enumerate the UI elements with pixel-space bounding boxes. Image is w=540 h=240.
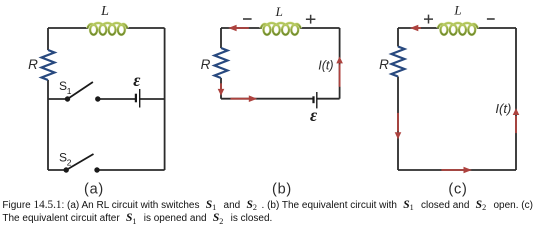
resistor R (c)	[392, 47, 405, 77]
wire right (b)	[339, 28, 341, 99]
current arrow bottom-right (c)	[441, 167, 472, 174]
current arrow left-down (c)	[395, 113, 402, 139]
label plus (c)	[424, 15, 433, 24]
wire top (b)	[221, 27, 340, 29]
svg-text:(c): (c)	[448, 181, 467, 197]
wire bottom (c)	[398, 169, 516, 171]
svg-text:ε: ε	[133, 70, 141, 90]
resistor R (b)	[215, 48, 228, 78]
svg-text:R: R	[379, 57, 389, 72]
svg-text:2: 2	[67, 157, 72, 167]
wire right (c)	[515, 28, 517, 170]
svg-text:I(t): I(t)	[495, 101, 511, 116]
current arrow top (b)	[228, 25, 249, 32]
current arrow left-down (b)	[218, 83, 225, 96]
wire right (a)	[164, 28, 166, 170]
wire top (a)	[48, 27, 165, 29]
switch S2 (a)	[63, 167, 99, 172]
label minus (c)	[487, 18, 495, 20]
wire left (a)	[47, 28, 49, 170]
wire top (c)	[398, 27, 516, 29]
wire bottom (b)	[221, 98, 340, 100]
switch S1 (a)	[65, 96, 101, 101]
battery EMF (a)	[136, 89, 140, 108]
inductor L (a)	[87, 23, 127, 35]
label plus (b)	[306, 15, 316, 24]
wire middle (a)	[48, 98, 165, 100]
svg-text:R: R	[28, 57, 38, 72]
current arrow right-up (b)	[336, 57, 343, 87]
inductor L (c)	[438, 23, 478, 35]
wire left (c)	[397, 28, 399, 170]
current arrow bottom-right (b)	[231, 95, 258, 102]
svg-text:R: R	[201, 57, 211, 72]
svg-text:I(t): I(t)	[318, 59, 333, 73]
battery EMF (b)	[314, 92, 317, 108]
svg-text:1: 1	[67, 86, 72, 96]
inductor L (b)	[261, 23, 301, 35]
figure caption	[2, 199, 538, 227]
current arrow right-up (c)	[513, 108, 520, 133]
wire left (b)	[220, 28, 222, 99]
current arrow top (c)	[410, 25, 421, 32]
resistor R (a)	[42, 50, 55, 80]
svg-text:(b): (b)	[272, 181, 292, 197]
svg-text:L: L	[275, 4, 283, 19]
wire bottom (a)	[48, 169, 165, 171]
svg-text:ε: ε	[310, 105, 318, 125]
svg-text:L: L	[100, 4, 109, 19]
label minus (b)	[243, 18, 252, 20]
svg-text:L: L	[453, 3, 461, 18]
svg-text:(a): (a)	[84, 181, 104, 197]
